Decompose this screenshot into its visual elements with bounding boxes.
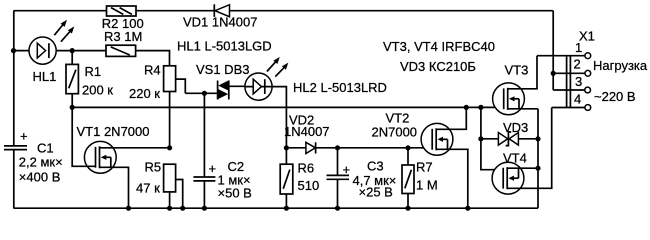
LED HL2: [245, 57, 288, 100]
wire bottom rail: [14, 207, 539, 209]
node bottom rail C2: [202, 206, 207, 211]
diode VD1: [183, 4, 257, 29]
svg-text:×50 В: ×50 В: [218, 186, 252, 201]
connector X1 bars: [567, 55, 571, 108]
svg-text:HL1 L-5013LGD: HL1 L-5013LGD: [177, 39, 272, 54]
connector X1 pin 3: [585, 87, 591, 93]
node VT4 source: [535, 166, 540, 171]
wire HL2 to gate row: [272, 87, 286, 148]
svg-text:220 к: 220 к: [129, 86, 160, 101]
node bottom rail R6: [284, 206, 289, 211]
svg-text:200 к: 200 к: [82, 83, 113, 98]
diode VD2: [284, 113, 330, 154]
svg-text:R4: R4: [144, 63, 161, 78]
svg-text:2: 2: [574, 57, 581, 72]
connector X1 pin 2: [585, 70, 591, 76]
transistor VT3: [493, 56, 538, 115]
svg-text:R7: R7: [416, 160, 433, 175]
svg-text:R3 1M: R3 1M: [104, 29, 142, 44]
zener VD3: [481, 120, 538, 146]
svg-text:R5: R5: [145, 160, 162, 175]
svg-text:VT2: VT2: [386, 111, 410, 126]
node R1 bottom: [70, 105, 75, 110]
node VD3 right: [535, 136, 540, 141]
svg-text:VS1 DB3: VS1 DB3: [196, 62, 249, 77]
resistor R3: [104, 29, 142, 56]
svg-text:VT4: VT4: [503, 151, 527, 166]
resistor R6: [280, 148, 319, 208]
node bottom rail R5: [167, 206, 172, 211]
svg-text:C1: C1: [37, 141, 54, 156]
svg-text:~220 В: ~220 В: [594, 89, 636, 104]
capacitor C1: [4, 129, 63, 185]
wire VT3 drain to X1-1: [537, 55, 585, 57]
wire X1-4: [552, 107, 585, 109]
capacitor C3: [327, 148, 397, 208]
svg-text:1: 1: [575, 40, 582, 55]
svg-text:510: 510: [298, 178, 320, 193]
wire HL1 row: [14, 51, 170, 66]
svg-text:+: +: [209, 161, 217, 176]
svg-text:R6: R6: [298, 161, 315, 176]
svg-text:VD3: VD3: [503, 120, 528, 135]
connector X1 pin 4: [585, 105, 591, 111]
svg-text:47 к: 47 к: [136, 181, 160, 196]
wire mid row: [72, 106, 503, 108]
wire common source line: [537, 109, 539, 208]
wire left rail: [13, 11, 15, 209]
svg-text:VT3: VT3: [505, 63, 529, 78]
wire gate line VT3 VT4: [481, 107, 503, 169]
svg-text:Нагрузка: Нагрузка: [593, 58, 648, 73]
LED HL1: [29, 20, 74, 84]
resistor R5 (trimmer, tap): [136, 160, 183, 209]
svg-text:2,2 мк×: 2,2 мк×: [19, 155, 63, 170]
resistor R7: [402, 148, 438, 208]
svg-text:×400 В: ×400 В: [19, 170, 61, 185]
resistor R1: [66, 51, 113, 108]
node bottom rail VT1 source: [126, 206, 131, 211]
diac VS1: [196, 62, 249, 99]
transistor VT4: [492, 108, 552, 195]
svg-text:HL1: HL1: [33, 69, 57, 84]
node R7 top: [405, 145, 410, 150]
wire top rail: [14, 10, 554, 12]
node VD3 left: [478, 136, 483, 141]
svg-text:R1: R1: [85, 64, 102, 79]
svg-text:VT1 2N7000: VT1 2N7000: [77, 124, 150, 139]
svg-text:4: 4: [574, 92, 581, 107]
connector X1 pin 1: [585, 53, 591, 59]
resistor R4 (trimmer, tap): [129, 63, 185, 148]
transistor VT1: [72, 107, 169, 208]
svg-text:C3: C3: [367, 159, 384, 174]
node bottom rail R7: [405, 206, 410, 211]
node bottom rail VT2 source: [465, 206, 470, 211]
node bottom rail C3: [335, 206, 340, 211]
node R6 top: [284, 145, 289, 150]
svg-text:+: +: [343, 162, 351, 177]
node HL1 left junction: [11, 48, 16, 53]
svg-text:+: +: [20, 129, 28, 144]
node bottom rail R5 tap: [180, 206, 185, 211]
svg-text:VD3 КС210Б: VD3 КС210Б: [400, 59, 476, 74]
node VS1 junction: [202, 91, 207, 96]
wire top rail drop to X1: [553, 11, 585, 90]
svg-text:1N4007: 1N4007: [284, 124, 330, 139]
svg-text:2N7000: 2N7000: [372, 125, 418, 140]
svg-text:1 М: 1 М: [416, 178, 438, 193]
node C3 top: [335, 145, 340, 150]
capacitor C2: [193, 93, 251, 208]
svg-text:3: 3: [575, 74, 582, 89]
transistor VT2: [372, 107, 468, 208]
resistor R2: [102, 6, 144, 31]
svg-text:VT3, VT4 IRFBC40: VT3, VT4 IRFBC40: [383, 39, 495, 54]
svg-text:VD1 1N4007: VD1 1N4007: [183, 15, 257, 30]
wire VS1 row: [185, 92, 218, 94]
node VT2 drain: [464, 105, 469, 110]
node X1-2 junction: [551, 71, 556, 76]
node gate line top: [478, 105, 483, 110]
svg-text:HL2 L-5013LRD: HL2 L-5013LRD: [293, 80, 387, 95]
node VT1 drain junction: [167, 145, 172, 150]
node HL1 right junction: [70, 48, 75, 53]
wire gate row (VD2 net): [286, 147, 432, 149]
svg-text:×25 В: ×25 В: [359, 185, 393, 200]
